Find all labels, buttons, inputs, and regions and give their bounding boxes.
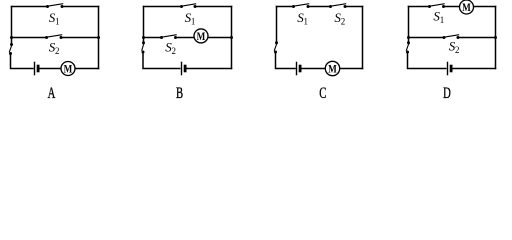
svg-text:2: 2 xyxy=(341,17,345,27)
svg-text:B: B xyxy=(176,84,183,102)
svg-text:1: 1 xyxy=(55,16,59,26)
svg-text:2: 2 xyxy=(455,45,459,55)
svg-text:M: M xyxy=(328,64,337,76)
svg-text:M: M xyxy=(197,31,206,43)
svg-text:M: M xyxy=(64,64,73,76)
svg-text:2: 2 xyxy=(55,46,59,56)
svg-text:1: 1 xyxy=(304,17,308,27)
svg-text:C: C xyxy=(319,84,326,102)
svg-text:M: M xyxy=(462,2,471,14)
svg-text:1: 1 xyxy=(191,16,195,26)
svg-text:1: 1 xyxy=(440,15,444,25)
svg-text:A: A xyxy=(48,84,56,102)
svg-text:D: D xyxy=(443,84,451,102)
svg-text:2: 2 xyxy=(172,46,176,56)
